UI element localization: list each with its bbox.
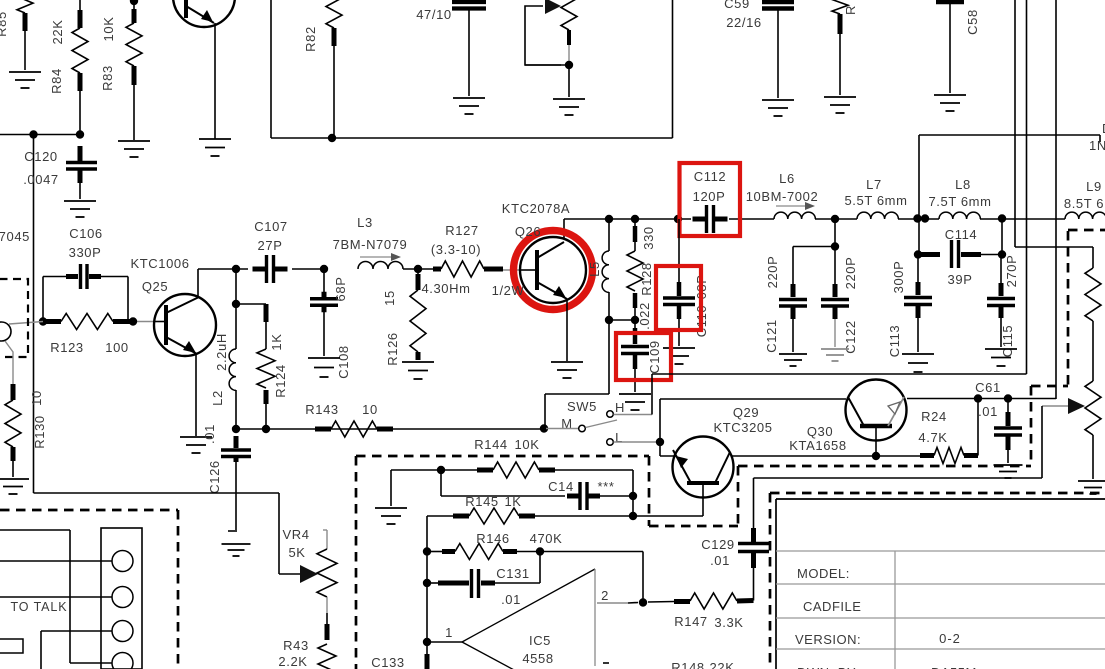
- svg-text:120P: 120P: [693, 189, 726, 204]
- svg-text:47/10: 47/10: [416, 7, 452, 22]
- svg-text:L5: L5: [587, 261, 602, 277]
- inductor L6: [774, 212, 815, 219]
- svg-text:4.30Hm: 4.30Hm: [421, 281, 470, 296]
- wire L5 bottom to SW5 M: [608, 320, 610, 394]
- svg-text:L9: L9: [1086, 179, 1102, 194]
- svg-text:R82: R82: [303, 26, 318, 52]
- inductor L8: [939, 212, 980, 219]
- wire to VR4 wiper net: [34, 492, 280, 494]
- wire top-left horizontal net: [0, 134, 80, 136]
- wire wiper down to C129 net: [1041, 406, 1043, 478]
- svg-text:R85: R85: [0, 11, 9, 37]
- svg-text:C126: C126: [207, 460, 222, 493]
- wire vertical rail B right side: [1026, 0, 1028, 374]
- capacitor C131: [423, 579, 431, 587]
- inductor L2: [229, 349, 236, 390]
- svg-text:VERSION:: VERSION:: [795, 632, 861, 647]
- svg-text:C121: C121: [764, 319, 779, 352]
- box top-middle enclosure: [270, 0, 272, 138]
- svg-text:C107: C107: [254, 219, 287, 234]
- svg-text:DA55M: DA55M: [931, 665, 977, 669]
- wire left rail IC5: [426, 516, 428, 656]
- svg-text:39P: 39P: [948, 272, 973, 287]
- wire connector pin 3: [41, 630, 112, 632]
- svg-text:L2: L2: [210, 390, 225, 406]
- svg-text:270P: 270P: [1004, 255, 1019, 288]
- resistor R85: [17, 0, 33, 13]
- svg-text:H: H: [615, 400, 625, 415]
- svg-text:27P: 27P: [258, 238, 283, 253]
- svg-text:Q25: Q25: [142, 279, 168, 294]
- node junction dot left rail: [29, 130, 37, 138]
- title block table lines: [776, 550, 1105, 552]
- svg-text:CADFILE: CADFILE: [803, 599, 861, 614]
- wire connector pin 4: [70, 662, 112, 664]
- wire left vertical rail: [33, 135, 35, 494]
- wire Q top-left emitter to ground: [214, 23, 216, 139]
- node C114 left: [914, 250, 922, 258]
- red highlight box C109: [616, 333, 671, 380]
- resistor R24: [920, 453, 934, 458]
- svg-text:22K: 22K: [710, 660, 735, 669]
- svg-text:C131: C131: [496, 566, 529, 581]
- svg-text:5K: 5K: [288, 545, 305, 560]
- svg-text:C61: C61: [975, 380, 1001, 395]
- node L9 left junction: [998, 214, 1006, 222]
- svg-text:1N6: 1N6: [1089, 138, 1105, 153]
- wire rail A to pot top: [1015, 246, 1093, 248]
- capacitor C121: [792, 247, 794, 285]
- svg-text:.0047: .0047: [23, 172, 59, 187]
- svg-text:R144: R144: [474, 437, 507, 452]
- capacitor C59 electrolytic: [762, 0, 794, 4]
- resistor R123: [39, 317, 47, 325]
- node C14 right: [629, 492, 637, 500]
- svg-text:C108: C108: [336, 345, 351, 378]
- capacitor C61: [1007, 399, 1009, 413]
- red highlight circle Q26: [514, 231, 593, 310]
- svg-text:C129: C129: [701, 537, 734, 552]
- node C115 top: [998, 250, 1006, 258]
- node C107 left / rail: [232, 265, 240, 273]
- svg-text:C58: C58: [965, 9, 980, 35]
- wire Q26 emitter to ground: [566, 299, 568, 361]
- capacitor C133 (cut): [425, 654, 430, 669]
- wire vertical rail C right side: [1055, 0, 1057, 399]
- svg-text:TO TALK: TO TALK: [10, 600, 67, 614]
- svg-text:R24: R24: [921, 409, 947, 424]
- ground under C113: [902, 353, 934, 355]
- ground under C59: [762, 99, 794, 101]
- svg-text:KTA1658: KTA1658: [789, 438, 846, 453]
- svg-text:8.5T 6: 8.5T 6: [1064, 196, 1104, 211]
- dashed box around mic connector: [0, 279, 28, 357]
- svg-text:R143: R143: [305, 402, 338, 417]
- svg-text:Q30: Q30: [807, 424, 833, 439]
- svg-text:Q29: Q29: [733, 405, 759, 420]
- potentiometer VR right lower: [1085, 381, 1101, 435]
- node SW5 M wire: [540, 424, 548, 432]
- capacitor C113: [917, 255, 919, 282]
- capacitor C122: [833, 284, 838, 297]
- wire rail from C107 node down: [235, 269, 237, 349]
- wire connector pin 2: [0, 596, 112, 598]
- node L7 left: [831, 215, 839, 223]
- capacitor C120: [78, 146, 83, 161]
- svg-text:4.7K: 4.7K: [918, 430, 947, 445]
- capacitor C108: [323, 269, 325, 295]
- ground under R130: [0, 478, 29, 480]
- svg-text:L: L: [615, 430, 623, 445]
- inductor L9: [1065, 212, 1105, 219]
- resistor R83: [130, 0, 138, 5]
- svg-text:2.2K: 2.2K: [278, 654, 307, 669]
- svg-text:1: 1: [445, 625, 453, 640]
- node C61 top: [1004, 394, 1012, 402]
- capacitor C126: [234, 436, 239, 448]
- red highlight box C110: [656, 266, 701, 330]
- svg-text:SW5: SW5: [567, 399, 597, 414]
- svg-text:R124: R124: [273, 364, 288, 397]
- ground under pot: [1078, 480, 1105, 482]
- wire audio line y429: [236, 428, 544, 430]
- wire main RF line: [564, 218, 691, 220]
- dashed box bottom-left: [0, 509, 178, 512]
- wire R144 left to ground: [391, 469, 441, 471]
- node L5 top: [605, 215, 613, 223]
- wire Q30 collector down: [875, 426, 877, 456]
- svg-text:470K: 470K: [530, 531, 563, 546]
- svg-text:7045: 7045: [0, 229, 30, 244]
- arrow above L6: [776, 205, 807, 207]
- svg-text:7.5T 6mm: 7.5T 6mm: [928, 194, 991, 209]
- wire vertical rail A right side: [1014, 0, 1016, 247]
- svg-text:C114: C114: [945, 227, 978, 242]
- svg-text:KTC2078A: KTC2078A: [502, 201, 570, 216]
- ground under R85: [9, 71, 41, 73]
- svg-text:R84: R84: [49, 68, 64, 94]
- red highlight box C112: [680, 163, 741, 236]
- svg-text:R145: R145: [465, 494, 498, 509]
- arrow above L3: [360, 256, 392, 258]
- svg-text:5.5T 6mm: 5.5T 6mm: [844, 193, 907, 208]
- resistor R84: [79, 0, 81, 10]
- wire SW5 H to riser: [614, 414, 653, 416]
- svg-text:***: ***: [598, 479, 615, 494]
- op-amp IC5 4558: [427, 641, 462, 643]
- svg-text:R: R: [843, 5, 858, 15]
- svg-text:220P: 220P: [843, 257, 858, 290]
- resistor R43: [326, 613, 328, 624]
- resistor R82: [326, 0, 342, 28]
- node R82 to box edge: [328, 134, 336, 142]
- ground under C121: [779, 353, 807, 355]
- node L5 bottom: [605, 316, 613, 324]
- svg-text:2: 2: [601, 588, 609, 603]
- svg-text:KTC3205: KTC3205: [713, 420, 772, 435]
- svg-text:4558: 4558: [522, 651, 553, 666]
- resistor R127: [433, 267, 441, 272]
- ground under C58: [934, 94, 966, 96]
- node C61 left: [974, 394, 982, 402]
- ground under C122 (grey): [821, 348, 849, 350]
- ground under C61: [994, 464, 1023, 466]
- resistor VR right upper: [1085, 268, 1101, 321]
- svg-text:.01: .01: [202, 424, 217, 444]
- inductor L3: [403, 268, 433, 270]
- svg-text:R127: R127: [445, 223, 478, 238]
- svg-text:R126: R126: [385, 332, 400, 365]
- node R145 right: [629, 512, 637, 520]
- ground under R top-right: [824, 96, 856, 98]
- node R146 right: [536, 547, 544, 555]
- title block frame: [775, 499, 777, 669]
- svg-text:.01: .01: [501, 592, 521, 607]
- wire L9 junction down: [1001, 219, 1003, 255]
- svg-text:.01: .01: [710, 553, 730, 568]
- resistor R130: [5, 341, 13, 384]
- wire net y135 to diode D: [919, 134, 1100, 136]
- svg-text:C106: C106: [69, 226, 102, 241]
- wire connector pin 1: [0, 560, 112, 562]
- svg-text:C115: C115: [1000, 325, 1015, 358]
- node rail junction: [913, 214, 921, 222]
- svg-text:L8: L8: [955, 177, 971, 192]
- capacitor C107: [198, 268, 248, 270]
- svg-text:VR4: VR4: [282, 527, 309, 542]
- svg-text:15: 15: [382, 290, 397, 306]
- svg-text:C120: C120: [24, 149, 57, 164]
- svg-text:R43: R43: [283, 638, 309, 653]
- wire feedback to pin2: [540, 551, 643, 553]
- wire Q25 collector up: [197, 269, 199, 297]
- inductor L5: [608, 219, 610, 251]
- ground under C110: [663, 347, 695, 349]
- node junction dot R84 bottom: [76, 130, 84, 138]
- inductor L7: [857, 212, 898, 219]
- svg-text:C133: C133: [371, 655, 404, 669]
- svg-text:22/16: 22/16: [726, 15, 762, 30]
- ground under C120: [64, 200, 96, 202]
- svg-text:(3.3-10): (3.3-10): [431, 242, 481, 257]
- svg-text:10: 10: [29, 390, 44, 406]
- ground under Q26: [551, 361, 583, 363]
- trimmer VR top (cut at top): [561, 0, 577, 30]
- node R128 top: [631, 215, 639, 223]
- svg-text:220P: 220P: [765, 256, 780, 289]
- ground under R126: [402, 361, 434, 363]
- capacitor C109: [634, 320, 636, 330]
- ground under C109: [619, 393, 651, 395]
- svg-text:300P: 300P: [891, 261, 906, 294]
- node R128/C109 junction: [631, 316, 639, 324]
- svg-text:MODEL:: MODEL:: [797, 566, 850, 581]
- svg-text:3.3K: 3.3K: [714, 615, 743, 630]
- wire L6/L7 junction down: [834, 219, 836, 284]
- node L contact junction: [656, 438, 664, 446]
- svg-text:330: 330: [641, 226, 656, 250]
- svg-text:R83: R83: [100, 65, 115, 91]
- title block dashed border: [770, 492, 1105, 495]
- svg-text:10BM-7002: 10BM-7002: [746, 189, 819, 204]
- svg-text:C109: C109: [647, 340, 662, 373]
- capacitor C129: [753, 478, 755, 528]
- wire Q29/Q30 top net y399: [660, 398, 846, 400]
- capacitor C106: [42, 277, 44, 322]
- ground under top-left transistor: [199, 138, 231, 140]
- capacitor C114: [920, 252, 940, 257]
- node R124 bottom: [262, 425, 270, 433]
- svg-text:R146: R146: [476, 531, 509, 546]
- resistor R124: [264, 304, 269, 322]
- node trimmer bottom junction: [565, 61, 573, 69]
- small pad rectangle: [0, 639, 23, 653]
- svg-text:L7: L7: [866, 177, 882, 192]
- wire Q29 base down: [702, 483, 704, 516]
- node C121 stub: [831, 242, 839, 250]
- svg-text:C14: C14: [548, 479, 574, 494]
- svg-text:330P: 330P: [69, 245, 102, 260]
- transistor Q top-left (partially cut): [173, 0, 235, 27]
- svg-text:2.2uH: 2.2uH: [214, 333, 229, 371]
- svg-text:DWN. BY: DWN. BY: [797, 665, 856, 669]
- svg-text:1/2W: 1/2W: [492, 283, 525, 298]
- node C126 top: [232, 425, 240, 433]
- svg-text:10K: 10K: [101, 17, 116, 42]
- svg-text:.022: .022: [637, 302, 652, 330]
- svg-text:.01: .01: [978, 404, 998, 419]
- svg-text:22K: 22K: [50, 20, 65, 45]
- svg-text:KTC1006: KTC1006: [130, 256, 189, 271]
- capacitor C110: [678, 219, 680, 288]
- svg-text:100: 100: [105, 340, 129, 355]
- capacitor C58: [936, 0, 964, 4]
- wire Q30 right to C61 net: [907, 398, 1056, 400]
- svg-text:1K: 1K: [269, 333, 284, 350]
- svg-text:Q26: Q26: [515, 224, 541, 239]
- svg-text:R123: R123: [50, 340, 83, 355]
- ground under R144 leg: [375, 507, 407, 509]
- resistor R145: [427, 515, 453, 517]
- node C112 left: [674, 215, 682, 223]
- wire H net y374: [652, 373, 1027, 375]
- svg-text:10: 10: [362, 402, 378, 417]
- ground under C108: [308, 357, 340, 359]
- svg-text:C112: C112: [694, 169, 727, 184]
- resistor R143: [315, 427, 331, 432]
- resistor R top-right (cut): [832, 0, 848, 14]
- wire Q29 emitter-collector net y456: [660, 455, 920, 457]
- resistor R128: [634, 219, 636, 226]
- svg-text:68P: 68P: [333, 277, 348, 302]
- capacitor C 47/10 electrolytic: [452, 0, 486, 4]
- wiper arrow of right pot: [1068, 398, 1085, 414]
- node R124 top: [232, 300, 240, 308]
- svg-text:1K: 1K: [504, 494, 521, 509]
- wire rail x919 down: [918, 218, 920, 255]
- svg-text:7BM-N7079: 7BM-N7079: [333, 237, 408, 252]
- connector block TO TALK: [0, 529, 70, 531]
- ground under R83: [118, 140, 150, 142]
- capacitor C112: [693, 217, 707, 222]
- svg-text:IC5: IC5: [529, 633, 551, 648]
- svg-text:L6: L6: [779, 171, 795, 186]
- svg-text:C59: C59: [724, 0, 750, 11]
- capacitor C115: [1000, 255, 1002, 284]
- resistor R126: [414, 265, 422, 273]
- mic connector J (cut at edge): [0, 322, 11, 341]
- svg-text:0-2: 0-2: [939, 631, 961, 646]
- resistor R146: [423, 547, 431, 555]
- resistor R144: [437, 466, 445, 474]
- node C108 top: [320, 265, 328, 273]
- wire SW5 L to Q29: [614, 441, 661, 443]
- ground under 47/10 cap: [453, 97, 485, 99]
- wire C129 net y478: [754, 477, 1043, 479]
- ground under C115: [985, 348, 1017, 350]
- svg-text:C113: C113: [887, 325, 902, 358]
- resistor R147: [648, 601, 674, 604]
- svg-text:R128: R128: [639, 262, 654, 295]
- wire Q25 emitter to ground: [195, 354, 197, 436]
- svg-text:10K: 10K: [515, 437, 540, 452]
- ground under trimmer: [553, 98, 585, 100]
- transistor Q26 KTC2078A: [563, 219, 565, 242]
- svg-text:R147: R147: [674, 614, 707, 629]
- ground under C126: [222, 543, 251, 545]
- svg-text:L3: L3: [357, 215, 373, 230]
- svg-text:R130: R130: [32, 415, 47, 448]
- svg-text:R148: R148: [671, 660, 704, 669]
- node pin2 output: [639, 598, 647, 606]
- node Q30 collector: [872, 452, 880, 460]
- dashed box audio section: [356, 455, 649, 458]
- capacitor C14: [440, 470, 442, 496]
- ground under Q25: [180, 436, 212, 438]
